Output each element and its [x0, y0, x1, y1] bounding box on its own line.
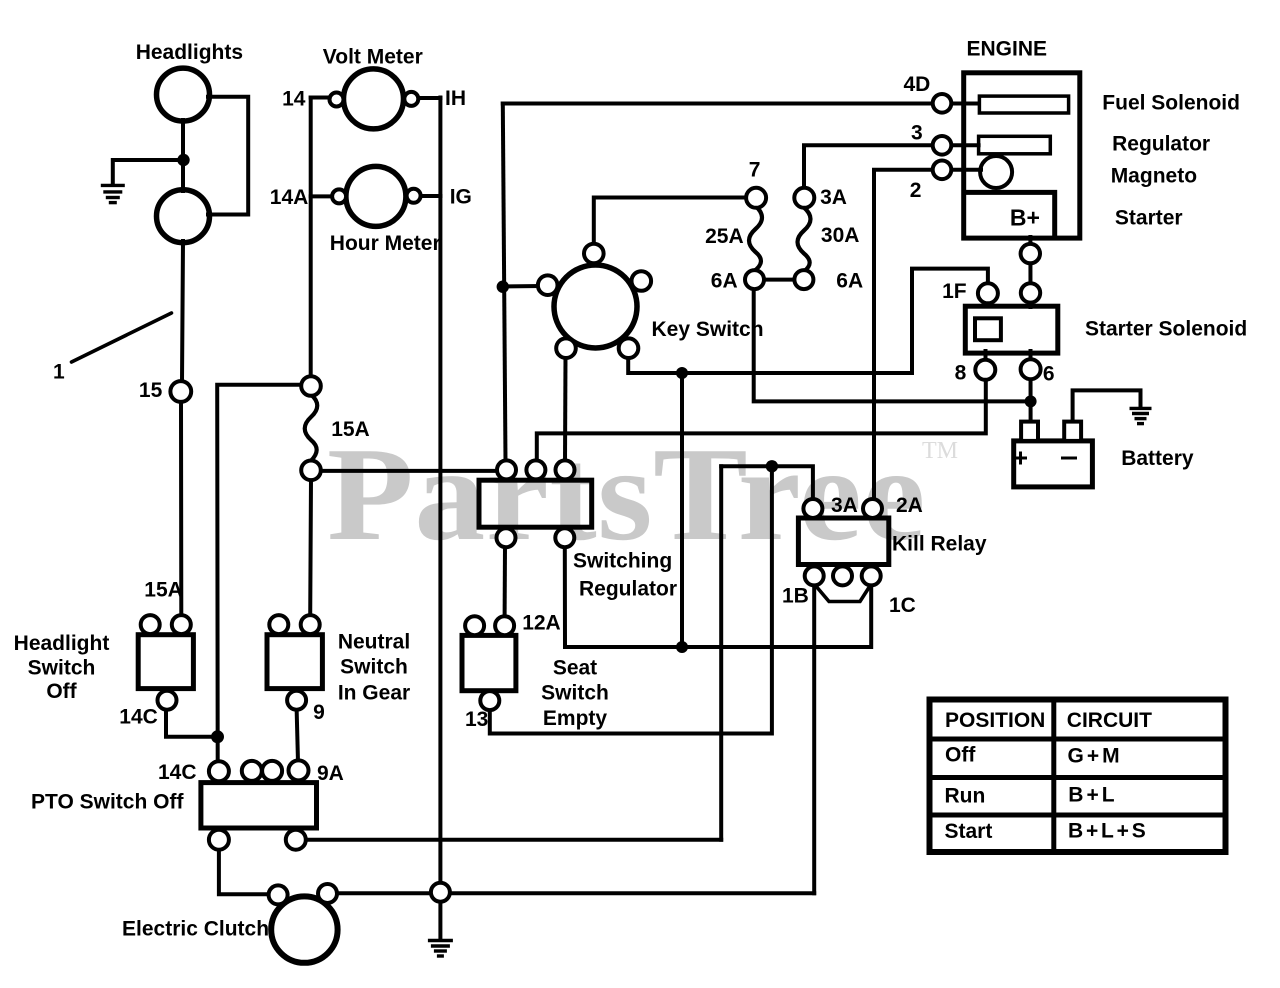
svg-text:14A: 14A: [270, 186, 309, 209]
svg-text:Electric Clutch: Electric Clutch: [122, 918, 269, 941]
svg-text:G+M: G+M: [1068, 744, 1123, 767]
svg-text:7: 7: [749, 159, 761, 182]
svg-text:Hour Meter: Hour Meter: [330, 232, 441, 255]
svg-text:Off: Off: [945, 744, 976, 767]
svg-text:15A: 15A: [144, 579, 183, 602]
svg-text:6: 6: [1043, 363, 1055, 386]
svg-text:Fuel Solenoid: Fuel Solenoid: [1102, 91, 1240, 114]
svg-text:6A: 6A: [836, 270, 863, 293]
svg-text:Seat: Seat: [553, 657, 597, 680]
svg-text:14: 14: [282, 88, 306, 111]
svg-text:ENGINE: ENGINE: [967, 38, 1048, 61]
svg-text:IG: IG: [450, 186, 472, 209]
svg-text:Starter Solenoid: Starter Solenoid: [1085, 317, 1247, 340]
svg-text:13: 13: [465, 708, 488, 731]
svg-text:3: 3: [911, 121, 923, 144]
svg-text:3A: 3A: [831, 494, 858, 517]
svg-text:Regulator: Regulator: [579, 578, 677, 601]
svg-text:Regulator: Regulator: [1112, 133, 1210, 156]
svg-text:In Gear: In Gear: [338, 681, 410, 704]
svg-text:Starter: Starter: [1115, 207, 1183, 230]
svg-text:6A: 6A: [711, 270, 738, 293]
svg-text:14C: 14C: [119, 706, 158, 729]
svg-text:Switch: Switch: [28, 657, 96, 680]
svg-text:Switching: Switching: [573, 550, 672, 573]
svg-text:12A: 12A: [522, 611, 561, 634]
svg-text:1C: 1C: [889, 594, 916, 617]
svg-text:Key Switch: Key Switch: [652, 318, 764, 341]
svg-text:25A: 25A: [705, 225, 744, 248]
svg-text:14C: 14C: [158, 761, 197, 784]
svg-text:9A: 9A: [317, 762, 344, 785]
svg-text:Switch: Switch: [340, 655, 408, 678]
svg-text:Empty: Empty: [543, 707, 608, 730]
svg-text:Neutral: Neutral: [338, 630, 410, 653]
svg-text:Headlight: Headlight: [14, 632, 110, 655]
svg-text:B+L+S: B+L+S: [1068, 819, 1149, 842]
svg-text:Volt Meter: Volt Meter: [323, 45, 423, 68]
svg-text:Switch: Switch: [541, 681, 609, 704]
svg-text:1B: 1B: [782, 585, 809, 608]
svg-text:PTO Switch Off: PTO Switch Off: [31, 791, 184, 814]
svg-text:B+L: B+L: [1068, 784, 1117, 807]
svg-text:Off: Off: [46, 680, 77, 703]
svg-text:9: 9: [313, 701, 325, 724]
svg-text:8: 8: [955, 362, 967, 385]
svg-text:POSITION: POSITION: [945, 709, 1045, 732]
svg-text:Kill Relay: Kill Relay: [892, 533, 987, 556]
svg-text:Magneto: Magneto: [1111, 165, 1197, 188]
svg-text:2: 2: [910, 179, 922, 202]
svg-text:2A: 2A: [896, 494, 923, 517]
svg-text:15A: 15A: [331, 418, 370, 441]
svg-text:IH: IH: [445, 87, 466, 110]
svg-text:Start: Start: [945, 820, 993, 843]
svg-text:15: 15: [139, 379, 163, 402]
svg-text:CIRCUIT: CIRCUIT: [1067, 709, 1152, 732]
svg-text:4D: 4D: [904, 73, 931, 96]
svg-text:1F: 1F: [942, 280, 967, 303]
svg-text:B+: B+: [1010, 204, 1040, 230]
svg-text:1: 1: [53, 361, 65, 384]
svg-text:Run: Run: [945, 784, 986, 807]
svg-text:30A: 30A: [821, 224, 860, 247]
svg-text:3A: 3A: [820, 186, 847, 209]
svg-text:Headlights: Headlights: [136, 41, 243, 64]
svg-text:Battery: Battery: [1121, 447, 1194, 470]
